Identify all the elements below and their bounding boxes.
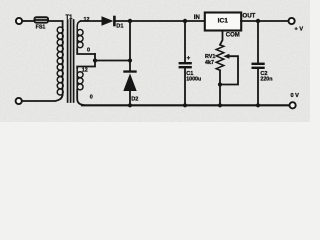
svg-text:1000u: 1000u bbox=[186, 77, 201, 83]
svg-text:0 V: 0 V bbox=[291, 93, 300, 99]
svg-text:COM: COM bbox=[226, 33, 240, 39]
IC1 regulator box bbox=[205, 13, 241, 31]
potentiometer RV1 track bbox=[216, 45, 224, 71]
svg-text:T1: T1 bbox=[66, 15, 74, 21]
node C2 bottom junction bbox=[256, 103, 260, 107]
capacitor C1 bbox=[179, 62, 192, 68]
wire upper secondary 0 lead bbox=[77, 49, 95, 54]
wire C1 to 0V rail bbox=[184, 68, 186, 105]
secondary winding upper (12V) bbox=[77, 21, 83, 49]
wire lower secondary 12 lead bbox=[77, 54, 95, 68]
svg-text:4k7: 4k7 bbox=[205, 60, 214, 66]
node D2 top junction bbox=[128, 19, 132, 23]
primary bottom lead bbox=[22, 95, 62, 101]
RV1 wiper arrow bbox=[220, 56, 238, 84]
terminal L (top-left input) bbox=[16, 18, 22, 24]
wire IC1 COM lead bbox=[220, 31, 223, 45]
capacitor C2 bbox=[252, 63, 265, 69]
node RV1 bottom junction bbox=[218, 103, 222, 107]
wire IC1 OUT to +V bbox=[241, 20, 288, 22]
wire centre tap to D2 line bbox=[95, 60, 130, 62]
svg-text:0: 0 bbox=[87, 47, 90, 53]
svg-text:FS1: FS1 bbox=[36, 25, 46, 31]
wire terminal to fuse bbox=[23, 20, 34, 22]
wire C2 branch upper bbox=[257, 21, 259, 63]
terminal N (bottom-left input) bbox=[16, 98, 22, 104]
wire D1 cathode to IC1 IN bbox=[116, 20, 205, 22]
transformer core bbox=[68, 20, 74, 102]
svg-text:+ V: + V bbox=[295, 27, 304, 33]
svg-text:RV1: RV1 bbox=[205, 54, 215, 60]
diode D1 bbox=[102, 16, 116, 27]
node centre-tap junction bbox=[93, 58, 97, 62]
wire lower secondary 0 lead to 0V rail bbox=[77, 90, 84, 105]
svg-text:+: + bbox=[187, 55, 191, 62]
svg-text:12: 12 bbox=[82, 68, 88, 74]
diode D2 bbox=[123, 70, 136, 91]
node C1 bottom junction bbox=[183, 103, 187, 107]
terminal +V bbox=[289, 18, 295, 24]
fuse FS1 bbox=[34, 16, 50, 23]
wire fuse to transformer primary bbox=[49, 21, 63, 27]
svg-text:IN: IN bbox=[194, 15, 200, 21]
wire C2 to 0V rail bbox=[257, 69, 259, 105]
svg-text:220n: 220n bbox=[260, 77, 272, 83]
node D2 bottom junction bbox=[128, 103, 132, 107]
svg-text:0: 0 bbox=[90, 94, 93, 100]
wire D2 branch upper bbox=[129, 21, 131, 70]
node C2 top junction bbox=[256, 19, 260, 23]
wire RV1 bottom to 0V rail bbox=[219, 70, 221, 105]
0V rail bbox=[82, 104, 290, 106]
svg-text:D2: D2 bbox=[131, 97, 138, 103]
svg-text:IC1: IC1 bbox=[218, 18, 229, 25]
svg-text:OUT: OUT bbox=[242, 13, 255, 20]
transformer T1 primary winding bbox=[57, 27, 63, 95]
svg-text:D1: D1 bbox=[116, 23, 123, 29]
wire D2 anode to 0V rail bbox=[129, 91, 131, 105]
node C1 top junction bbox=[183, 19, 187, 23]
svg-text:12: 12 bbox=[84, 17, 90, 23]
wire secondary 12 to D1 (top rail left) bbox=[81, 20, 102, 22]
node D2 tap junction bbox=[128, 58, 132, 62]
node RV1 wiper junction bbox=[218, 82, 222, 86]
wire C1 branch upper bbox=[184, 21, 186, 62]
terminal 0V bbox=[290, 102, 296, 108]
secondary winding lower (12V) bbox=[77, 68, 83, 90]
